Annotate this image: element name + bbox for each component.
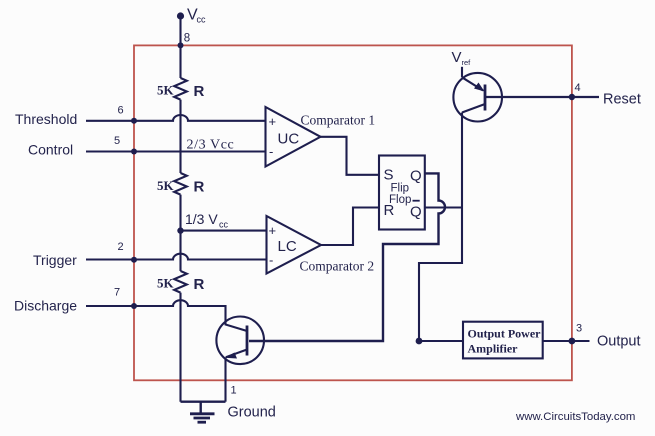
svg-text:Flip: Flip (391, 183, 410, 195)
svg-text:2/3 Vcc: 2/3 Vcc (187, 138, 235, 153)
svg-text:-: - (269, 253, 273, 268)
svg-text:V: V (452, 49, 462, 66)
output power amplifier block (463, 322, 543, 359)
svg-text:Q: Q (410, 204, 422, 221)
svg-text:Ground: Ground (228, 405, 276, 421)
wire ground rail (181, 401, 226, 403)
resistor R3 (5K) (174, 271, 187, 293)
wire LC output to flip-flop R input (321, 208, 379, 246)
svg-text:Discharge: Discharge (14, 298, 77, 314)
svg-text:cc: cc (219, 220, 229, 230)
pin 6 junction dot (131, 118, 137, 124)
svg-text:5K: 5K (157, 276, 175, 291)
svg-text:Comparator 1: Comparator 1 (301, 113, 376, 128)
overbar of Q-bar output (413, 200, 420, 202)
pin 4 junction dot (569, 94, 575, 100)
pin 2 junction dot (131, 257, 137, 263)
pin 8 junction dot on boundary (178, 42, 184, 48)
wire Trigger lead with hop over divider to LC inverting input (86, 254, 267, 260)
svg-text:+: + (269, 114, 277, 129)
svg-text:Comparator 2: Comparator 2 (300, 259, 375, 274)
wire divider segment R1 to R2 (179, 100, 181, 173)
svg-text:Control: Control (28, 142, 73, 158)
wire divider segment R2 to R3 (179, 195, 181, 271)
wire Vcc vertical into pin 8 (179, 16, 181, 78)
svg-text:3: 3 (576, 323, 582, 335)
wire flip-flop Q-bar output to reset transistor collector line (425, 206, 462, 208)
wire Control lead to UC inverting input (86, 150, 266, 152)
ground symbol (199, 402, 201, 413)
wire flip-flop Q output down to Q2 base (hops over Q-bar wire) (249, 173, 445, 341)
junction dot at amplifier input corner (416, 338, 423, 345)
svg-text:R: R (384, 202, 395, 219)
svg-text:5K: 5K (157, 178, 175, 193)
pin 5 junction dot (131, 149, 137, 155)
svg-text:Output Power: Output Power (468, 327, 542, 341)
svg-text:UC: UC (278, 131, 300, 148)
wire Discharge lead with hop over divider to Q2 collector (86, 300, 247, 331)
svg-text:8: 8 (184, 33, 190, 45)
svg-text:1/3 V: 1/3 V (185, 211, 218, 227)
svg-text:6: 6 (118, 105, 124, 117)
resistor R2 (5K) (174, 173, 187, 195)
wire 1/3 Vcc tap to LC non-inverting input (181, 230, 267, 232)
svg-text:ref: ref (462, 58, 472, 67)
svg-text:R: R (194, 276, 205, 293)
wire UC output to flip-flop S input (321, 137, 380, 175)
wire Q1 base to Reset pin 4 (485, 96, 599, 98)
wire Q2 emitter to ground rail (224, 358, 226, 402)
svg-text:Amplifier: Amplifier (468, 342, 519, 356)
wire amplifier output to pin 3 (543, 340, 590, 342)
svg-text:cc: cc (197, 15, 207, 25)
svg-text:www.CircuitsToday.com: www.CircuitsToday.com (515, 411, 635, 423)
svg-text:Trigger: Trigger (33, 252, 77, 268)
pin 7 junction dot (131, 303, 137, 309)
svg-text:5: 5 (114, 135, 120, 147)
Q1 Vref emitter stub (461, 67, 463, 78)
svg-text:Q: Q (410, 168, 422, 185)
svg-text:2: 2 (118, 241, 124, 253)
svg-text:R: R (194, 83, 205, 100)
wire Q1 collector down, over to amplifier input (419, 113, 463, 342)
svg-text:LC: LC (278, 238, 297, 255)
Q2 base bar (246, 326, 249, 356)
svg-text:S: S (384, 167, 394, 184)
Q1 emitter diagonal with arrow into base (462, 77, 483, 90)
transistor Q2 (discharge) (216, 317, 264, 365)
IC boundary red box (134, 45, 572, 380)
wire divider segment R3 to ground rail (179, 293, 181, 402)
svg-text:-: - (269, 144, 273, 159)
svg-text:1: 1 (231, 385, 237, 397)
node 1/3 Vcc junction dot (177, 227, 183, 233)
svg-text:Reset: Reset (603, 92, 641, 108)
wire Threshold lead with hop over divider (86, 115, 266, 121)
flip-flop U3 box (379, 156, 425, 230)
svg-text:7: 7 (114, 287, 120, 299)
svg-text:R: R (194, 179, 205, 196)
Q1 collector diagonal (462, 104, 485, 113)
op-amp U1 comparator UC (266, 107, 321, 167)
svg-text:Threshold: Threshold (15, 111, 77, 127)
pin 3 junction dot (569, 338, 576, 345)
node Vcc terminal dot (177, 12, 184, 19)
svg-text:4: 4 (575, 82, 581, 94)
svg-text:5K: 5K (157, 83, 175, 98)
Q2 emitter diagonal with arrow (226, 350, 247, 358)
svg-text:Output: Output (597, 334, 641, 350)
svg-text:+: + (269, 223, 277, 238)
resistor R1 (5K) (174, 78, 187, 100)
transistor Q1 (reset) (453, 73, 502, 122)
Q1 base bar (484, 85, 487, 111)
op-amp U2 comparator LC (267, 216, 322, 274)
